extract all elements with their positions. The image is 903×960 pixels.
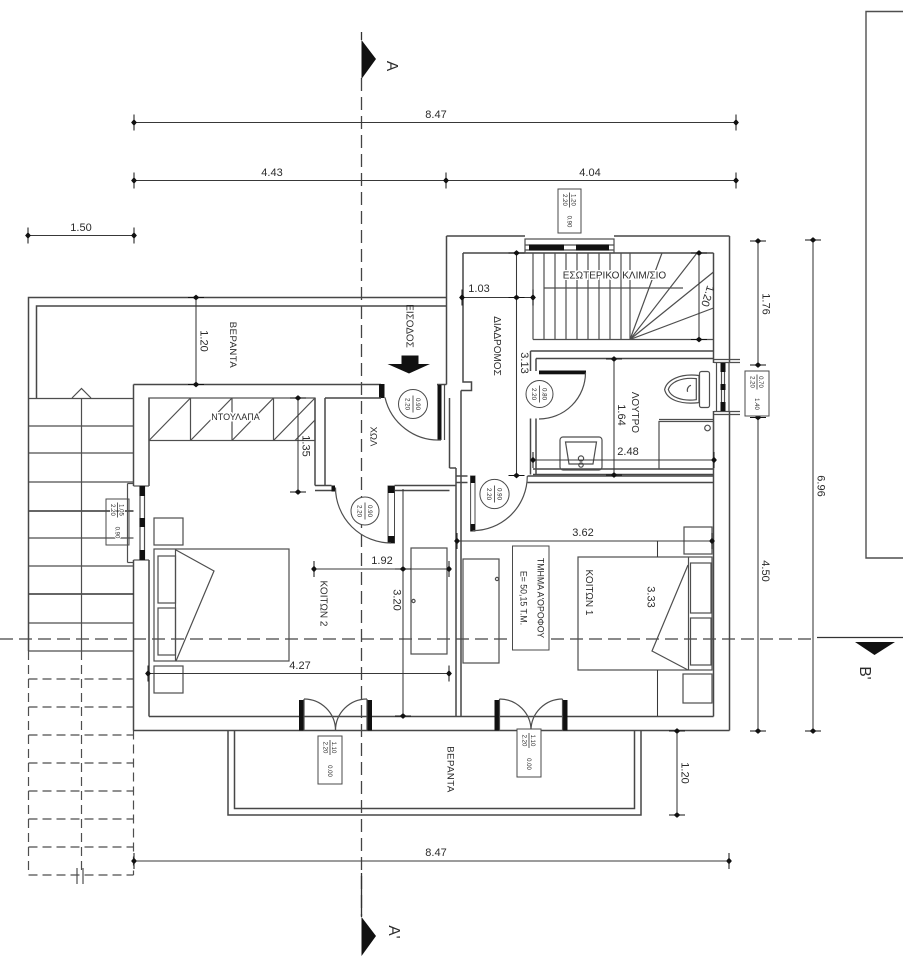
svg-text:A': A' — [385, 925, 402, 938]
svg-text:1.64: 1.64 — [615, 404, 627, 425]
section label A' — [385, 925, 402, 938]
bedroom1 door swing arc — [473, 476, 528, 531]
bedroom1 top wall north face — [456, 475, 714, 477]
room label hall — [367, 427, 378, 447]
svg-text:0.90: 0.90 — [414, 398, 421, 411]
window label left 1.05/2.20 0.90 — [106, 499, 129, 545]
interior stair winder fan — [630, 253, 714, 340]
svg-text:A: A — [383, 61, 400, 72]
dim 1.03 — [459, 283, 536, 306]
hall top inner face — [325, 397, 381, 399]
interior stair treads — [533, 253, 630, 340]
interior stair flight divide line — [544, 287, 683, 289]
door label circle hall 0.90/2.20 — [351, 497, 379, 525]
bed 1 outline — [578, 557, 712, 670]
dim 2.48 — [530, 446, 717, 468]
top veranda outer boundary — [29, 298, 447, 399]
bed 1 nightstand top — [684, 527, 712, 554]
svg-text:1.50: 1.50 — [70, 222, 91, 234]
svg-text:2.48: 2.48 — [617, 446, 638, 458]
svg-text:3.33: 3.33 — [645, 586, 657, 607]
svg-text:2.20: 2.20 — [749, 376, 755, 388]
hall left wall west face — [314, 398, 316, 486]
dim 3.13 — [509, 250, 531, 478]
bottom wall inner face — [149, 716, 714, 718]
svg-text:2.20: 2.20 — [356, 505, 363, 518]
top window glazing — [525, 245, 614, 251]
room label bedroom 1 — [583, 570, 594, 616]
dim 1.64 — [606, 356, 627, 478]
bath bottom wall south face — [533, 474, 714, 476]
svg-text:ΚΟΙΤΩΝ 1: ΚΟΙΤΩΝ 1 — [583, 570, 594, 616]
room label bedroom 2 — [317, 581, 328, 627]
bed 2 outline — [154, 549, 289, 661]
bedroom1 door leaf — [471, 476, 475, 531]
stair room bottom edge — [533, 339, 714, 341]
dim 1.92 — [311, 555, 452, 577]
left wall inner face — [148, 398, 150, 717]
exterior stair left boundary — [28, 398, 30, 651]
right wall outer face — [729, 236, 731, 731]
exterior stair solid treads — [29, 399, 134, 652]
entry door left jamb — [379, 384, 385, 398]
svg-text:2.20: 2.20 — [322, 742, 328, 754]
bedroom1 top wall south face — [456, 482, 714, 484]
bottom veranda inner boundary — [235, 731, 635, 809]
svg-text:1.10: 1.10 — [330, 742, 336, 754]
room label veranda top — [227, 322, 238, 369]
svg-text:6.96: 6.96 — [815, 475, 827, 496]
svg-text:8.47: 8.47 — [425, 109, 446, 121]
dim 1.76 — [750, 238, 772, 368]
toilet bowl — [665, 375, 699, 403]
room label corridor — [491, 316, 502, 376]
svg-text:ΕΣΩΤΕΡΙΚΟ ΚΛΙΜ/ΣΙΟ: ΕΣΩΤΕΡΙΚΟ ΚΛΙΜ/ΣΙΟ — [563, 271, 667, 282]
svg-text:1.20: 1.20 — [679, 762, 691, 783]
svg-text:1.35: 1.35 — [300, 435, 312, 456]
svg-text:2.20: 2.20 — [561, 194, 567, 206]
section marker A (top triangle) — [362, 40, 377, 79]
hall door swing arc — [336, 488, 392, 544]
top window frame — [525, 239, 614, 253]
french door 1 leaf arcs — [304, 699, 367, 731]
exterior stair walking line dashed part — [81, 651, 83, 875]
bed 2 desk — [411, 548, 447, 654]
bed 2 nightstand top — [154, 518, 183, 545]
bed 2 pillow bottom — [158, 608, 176, 655]
annex left wall inner face with notch — [461, 253, 472, 391]
bath top wall north face — [531, 350, 714, 352]
svg-text:2.20: 2.20 — [109, 504, 115, 516]
bath top wall south face — [536, 358, 714, 360]
left window frame — [134, 486, 150, 560]
room label entrance — [403, 304, 414, 348]
dim 1.20 winder — [691, 250, 716, 342]
section line A-A' vertical — [361, 32, 363, 917]
bed 2 headboard line — [175, 549, 177, 661]
bed 1 desk — [463, 559, 499, 663]
svg-text:2.20: 2.20 — [530, 388, 537, 401]
dim 8.47 bottom — [131, 847, 732, 869]
bath door leaf — [539, 371, 586, 375]
bed 1 nightstand bottom — [683, 674, 712, 703]
svg-text:ΛΟΥΤΡΟ: ΛΟΥΤΡΟ — [629, 392, 640, 433]
exterior stair walking line — [81, 398, 83, 651]
bath left wall lower stub — [531, 419, 537, 475]
entrance arrow — [388, 356, 431, 374]
entry door leaf — [438, 385, 445, 440]
door label circle entry 0.90/2.20 — [399, 390, 428, 419]
svg-text:ΕΙΣΟΔΟΣ: ΕΙΣΟΔΟΣ — [403, 304, 414, 348]
french door 1 left jamb — [299, 700, 304, 731]
window label top 1.20/2.20 0.90 — [558, 189, 581, 233]
bottom veranda outer boundary — [228, 731, 641, 815]
svg-text:0.90: 0.90 — [565, 216, 571, 228]
door label french 2 1.10/2.20 0.00 — [517, 729, 541, 777]
svg-text:B': B' — [856, 666, 873, 679]
bed 1 sheet fold — [652, 565, 688, 670]
right window frame — [717, 363, 730, 411]
window label right 0.70/2.20 1.40 — [745, 371, 769, 416]
closet ΝΤΟΥΛΑΠΑ outline — [149, 398, 315, 441]
dim 1.35 — [290, 395, 312, 495]
entry door swing arc — [385, 398, 441, 441]
svg-text:4.04: 4.04 — [579, 167, 600, 179]
annex left wall outer face — [446, 236, 448, 385]
section line B-B' horizontal — [0, 638, 903, 640]
svg-text:4.43: 4.43 — [261, 167, 282, 179]
svg-text:1.10: 1.10 — [529, 735, 535, 747]
svg-text:0.90: 0.90 — [496, 488, 503, 501]
svg-text:2.20: 2.20 — [485, 488, 492, 501]
bed 1 headboard line — [688, 557, 690, 670]
hall right pilaster outer face — [450, 398, 457, 468]
hall bottom wall south face — [315, 490, 450, 492]
section label A — [383, 61, 400, 72]
annex top wall inner face — [463, 252, 714, 254]
bath door swing arc — [539, 373, 586, 420]
dim 4.27 — [145, 660, 452, 682]
svg-text:ΔΙΑΔΡΟΜΟΣ: ΔΙΑΔΡΟΜΟΣ — [491, 316, 502, 376]
right window sill lines — [714, 360, 740, 415]
svg-text:2.20: 2.20 — [404, 398, 411, 411]
dim 1.20 bottom veranda — [669, 728, 691, 818]
svg-text:ΧΩΛ: ΧΩΛ — [367, 427, 378, 447]
svg-text:8.47: 8.47 — [425, 847, 446, 859]
svg-text:2.20: 2.20 — [521, 735, 527, 747]
toilet tank — [700, 372, 710, 408]
bed 2 sheet fold — [176, 550, 214, 661]
main top wall outer face — [134, 384, 447, 386]
section label B' — [856, 666, 873, 679]
section marker A' (bottom triangle) — [362, 917, 377, 956]
dim 3.33 — [645, 541, 658, 716]
adjacent building outline top-right — [866, 12, 903, 559]
bed 2 pillow top — [158, 556, 176, 603]
bottom wall outer face — [134, 730, 730, 732]
exterior stair direction arrowhead — [72, 389, 91, 399]
svg-text:3.13: 3.13 — [518, 352, 530, 373]
top veranda inner boundary — [37, 306, 447, 398]
dim 3.62 — [454, 527, 715, 549]
section marker B' (right triangle) — [855, 642, 895, 655]
french door 2 leaf arcs — [500, 699, 563, 731]
svg-text:1.03: 1.03 — [468, 283, 489, 295]
hall left wall east face — [324, 398, 326, 486]
svg-text:1.20: 1.20 — [570, 194, 576, 206]
dim 8.47 top — [131, 109, 739, 131]
exterior stair break mark — [77, 868, 83, 884]
bath left wall upper stub — [531, 351, 537, 371]
bed 2 nightstand bottom — [154, 666, 183, 693]
dim 1.20 top veranda — [188, 295, 210, 388]
svg-text:0.90: 0.90 — [366, 505, 373, 518]
svg-text:ΚΟΙΤΩΝ 2: ΚΟΙΤΩΝ 2 — [317, 581, 328, 627]
svg-text:3.20: 3.20 — [391, 589, 403, 610]
svg-text:1.05: 1.05 — [118, 504, 124, 516]
right window glazing — [721, 363, 726, 411]
hall door strike jamb — [332, 486, 336, 492]
svg-text:0.00: 0.00 — [525, 758, 531, 770]
svg-text:0.70: 0.70 — [757, 376, 763, 388]
closet dividers — [191, 398, 274, 441]
svg-text:3.62: 3.62 — [572, 527, 593, 539]
bath bottom wall north face — [533, 468, 714, 470]
svg-text:ΤΜΗΜΑ Α'ΟΡΟΦΟΥ: ΤΜΗΜΑ Α'ΟΡΟΦΟΥ — [536, 558, 546, 638]
door label french 1 1.10/2.20 0.00 — [318, 736, 342, 784]
wash basin — [560, 437, 602, 470]
left wall outer face — [133, 385, 135, 731]
door label circle bedroom1 0.90/2.20 — [480, 479, 509, 508]
svg-text:4.27: 4.27 — [289, 660, 310, 672]
corridor/hall right wall face — [460, 391, 462, 717]
room label veranda bottom — [444, 746, 455, 793]
hall bottom wall north face — [315, 485, 456, 487]
svg-text:1.20: 1.20 — [198, 330, 210, 351]
area label box ΤΜΗΜΑ — [513, 546, 550, 650]
dim 4.50 — [750, 413, 771, 734]
dim 6.96 — [805, 237, 827, 734]
left window glazing — [140, 486, 146, 560]
shower tray — [659, 420, 714, 470]
svg-text:ΒΕΡΑΝΤΑ: ΒΕΡΑΝΤΑ — [444, 746, 455, 793]
svg-text:0.90: 0.90 — [113, 527, 119, 539]
closet hatch diagonals — [149, 398, 315, 441]
svg-text:1.92: 1.92 — [371, 555, 392, 567]
dim 1.50 — [25, 222, 137, 244]
left window sill lines — [128, 484, 134, 563]
svg-text:ΝΤΟΥΛΑΠΑ: ΝΤΟΥΛΑΠΑ — [211, 412, 259, 422]
door label circle bath 0.80/2.20 — [526, 381, 553, 408]
bed 1 pillow top — [691, 563, 712, 613]
svg-text:0.00: 0.00 — [326, 765, 332, 777]
room label interior staircase — [563, 271, 667, 282]
room label bathroom — [629, 392, 640, 433]
french door 2 right jamb — [563, 700, 568, 731]
svg-text:1.40: 1.40 — [753, 398, 759, 410]
dim 3.20 — [391, 489, 411, 719]
right wall inner face — [713, 253, 715, 717]
svg-text:0.80: 0.80 — [541, 388, 548, 401]
svg-text:Ε= 50,15 Τ.Μ.: Ε= 50,15 Τ.Μ. — [519, 571, 529, 625]
bedroom divider wall west face — [455, 468, 457, 717]
svg-text:4.50: 4.50 — [759, 560, 771, 581]
bed 1 pillow bottom — [691, 618, 712, 665]
exterior stair dashed treads (below section plane) — [29, 679, 134, 847]
svg-text:1.76: 1.76 — [760, 293, 772, 314]
dim 4.43 / 4.04 — [131, 167, 739, 189]
annex top wall outer face — [447, 235, 730, 237]
french door 2 left jamb — [495, 700, 500, 731]
french door 1 right jamb — [367, 700, 372, 731]
svg-text:ΒΕΡΑΝΤΑ: ΒΕΡΑΝΤΑ — [227, 322, 238, 369]
hall door leaf — [388, 486, 395, 543]
exterior stair dashed boundary — [29, 651, 134, 875]
room label closet — [211, 412, 259, 422]
